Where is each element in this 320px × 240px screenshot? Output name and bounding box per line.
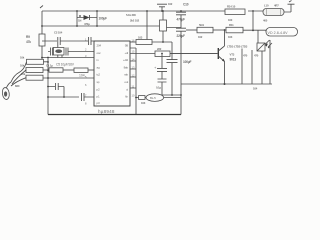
svg-text:100: 100 [228, 18, 233, 22]
bottom ground bus [48, 114, 181, 116]
svg-text:204: 204 [97, 44, 102, 48]
wire vertical drop A (x77) [76, 11, 78, 26]
svg-text:+di: +di [125, 51, 129, 55]
svg-text:out: out [124, 80, 128, 84]
svg-text:2k2 102: 2k2 102 [130, 19, 140, 23]
svg-text:0.1µ: 0.1µ [156, 86, 161, 90]
ground bus right y84 [181, 83, 272, 85]
resistor R10 (vertical x163) [160, 11, 167, 42]
resistor R5 (row2 mid) [49, 68, 74, 72]
IC left pin numbers [85, 38, 87, 106]
antenna terminal [288, 1, 295, 13]
junction dot [252, 10, 254, 12]
svg-text:+di2: +di2 [123, 58, 128, 62]
junction dot [135, 97, 137, 99]
svg-text:9B: 9B [125, 44, 128, 48]
junction dot [252, 30, 254, 32]
svg-text:9013: 9013 [230, 58, 237, 62]
svg-text:tc2: tc2 [97, 73, 101, 77]
wire top supply bus [42, 11, 291, 12]
resistor R12 (row42) [136, 40, 172, 45]
junction dot [63, 96, 65, 98]
junction dot [47, 86, 49, 88]
crystal B1 [48, 48, 94, 56]
plug resistor R4 [26, 75, 94, 80]
junction dot [47, 69, 49, 71]
svg-text:220µF: 220µF [177, 34, 186, 38]
svg-text:8ab: 8ab [124, 65, 129, 69]
capacitor C2 (on pin wire y41) [42, 37, 88, 45]
junction dot [47, 96, 49, 98]
resistor R15 (row A) [186, 27, 228, 33]
junction dot [47, 57, 49, 59]
svg-text:C5 10µF/16V: C5 10µF/16V [56, 63, 75, 67]
wire bias rail y26 [42, 26, 181, 28]
svg-text:R11: R11 [229, 23, 234, 27]
IC left pin names [97, 44, 102, 106]
plug resistor R2 [27, 59, 49, 64]
junction node rail-left [41, 25, 43, 27]
junction dot [76, 25, 78, 27]
junction dot [47, 77, 49, 79]
wire row y57.5 [42, 57, 94, 59]
svg-text:470: 470 [254, 54, 259, 58]
junction dot [162, 10, 164, 12]
wire row y86.5 with cap C6 [48, 83, 64, 97]
IC right pin names [123, 44, 128, 99]
IC right pin stubs [130, 48, 136, 88]
IC U1 hu8948 [94, 41, 130, 106]
svg-text:hµ8948: hµ8948 [98, 109, 115, 114]
speaker oval BL [146, 94, 164, 102]
wire join y95 [162, 94, 181, 96]
junction dot [146, 10, 148, 12]
junction dot [161, 53, 163, 55]
junction dot [180, 10, 182, 12]
svg-text:5.1k 300: 5.1k 300 [126, 13, 136, 17]
plug resistor R3 [26, 68, 49, 73]
svg-text:100µF: 100µF [99, 17, 108, 21]
junction dot [76, 10, 78, 12]
wire drop x242 [241, 49, 243, 85]
svg-text:47k: 47k [26, 40, 31, 44]
svg-text:222: 222 [157, 47, 162, 51]
capacitor C3 (at IC pin1) [89, 37, 94, 45]
svg-text:100µF: 100µF [183, 60, 192, 64]
wire collector [224, 30, 226, 46]
svg-text:1N: 1N [78, 19, 81, 23]
svg-text:4R7: 4R7 [274, 4, 279, 8]
regulator VD pill [266, 28, 298, 37]
wire osc links [58, 45, 62, 58]
left rail x48 [47, 58, 49, 115]
wire left supply drop to R9 [41, 11, 43, 34]
svg-text:C10: C10 [183, 3, 189, 7]
wire drop x253 [252, 11, 254, 31]
junction dot [224, 29, 226, 31]
capacitor C9 (x181 mid) [176, 28, 186, 84]
microphone MIC [2, 82, 11, 100]
resistor R17 (speaker lead) [139, 96, 146, 100]
wire IC right base row y53.5 [130, 53, 155, 55]
svg-text:102: 102 [198, 35, 203, 39]
junction dot [162, 41, 164, 43]
svg-text:102: 102 [168, 2, 173, 6]
svg-text:103: 103 [138, 36, 143, 40]
resistor R16 (row B) [226, 27, 266, 33]
resistor R9 (vertical, left) [39, 34, 45, 62]
IC right pin numbers [132, 39, 135, 98]
wire drop x172 [171, 42, 173, 60]
wire drop x147 [146, 11, 148, 40]
svg-text:470: 470 [243, 54, 248, 58]
resistor R14 (on bus) [225, 9, 245, 15]
wire row y97 with cap C7 [48, 93, 94, 101]
svg-text:5Ω1: 5Ω1 [199, 23, 204, 27]
wire x181 lower [180, 84, 182, 115]
svg-text:MIC: MIC [15, 84, 20, 88]
rail x136 [135, 48, 137, 115]
svg-text:C1 1µ: C1 1µ [46, 64, 53, 68]
svg-text:VT3: VT3 [230, 53, 235, 57]
capacitor C4 (row2) [74, 68, 94, 72]
svg-text:C2 104: C2 104 [54, 31, 63, 35]
svg-text:BL-5: BL-5 [150, 96, 156, 100]
svg-text:103: 103 [228, 35, 233, 39]
svg-text:R9: R9 [26, 35, 30, 39]
resistor R13 (base) [155, 51, 217, 57]
plug cable fan [11, 62, 27, 86]
wire drop x262 [261, 51, 263, 84]
junction dot [161, 10, 163, 12]
wire vertical drop B (x97) [96, 11, 98, 26]
svg-text:VD 2.8-4.8V: VD 2.8-4.8V [268, 31, 289, 35]
junction dot [224, 83, 226, 85]
capacitor C8 (x181 top) [176, 11, 186, 28]
svg-text:104: 104 [253, 87, 258, 91]
inductor L1 pill [263, 9, 284, 16]
svg-text:osc: osc [97, 51, 102, 55]
wire IC right row y42 [130, 41, 136, 43]
svg-text:470µ: 470µ [84, 22, 90, 26]
junction dot [47, 61, 49, 63]
svg-text:400: 400 [263, 19, 268, 23]
wire speaker out [164, 97, 181, 99]
junction dot [180, 94, 182, 96]
svg-text:rab: rab [124, 73, 128, 77]
svg-text:104: 104 [79, 74, 85, 78]
svg-text:10k: 10k [20, 56, 25, 60]
wire speaker row [136, 97, 146, 99]
junction dot [171, 94, 173, 96]
capacitor C12 (x172) [167, 60, 178, 95]
svg-text:R14 10: R14 10 [227, 5, 236, 9]
junction dot [41, 57, 43, 59]
wire drop x252 [251, 50, 253, 84]
junction dot [96, 10, 98, 12]
wire emitter [224, 62, 226, 85]
LED D2 [257, 31, 272, 52]
svg-text:470µF: 470µF [177, 18, 186, 22]
svg-text:LTD1·LTD2·LTD3: LTD1·LTD2·LTD3 [227, 45, 248, 49]
wire drop x270 [269, 40, 271, 84]
svg-text:103: 103 [141, 101, 146, 105]
transistor VT1 [170, 46, 225, 62]
capacitor C11 (above bus) [157, 4, 167, 11]
capacitor C13 stack (x162) [157, 54, 167, 96]
svg-text:L10: L10 [264, 4, 269, 8]
diode VD1 (between drops) [77, 15, 97, 20]
junction dot [96, 25, 98, 27]
tick at supply corner [40, 6, 43, 9]
